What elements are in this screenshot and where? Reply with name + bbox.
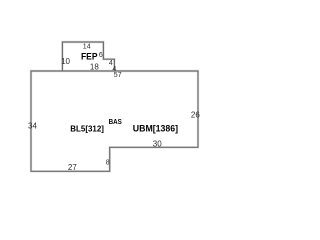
svg-text:18: 18 — [90, 62, 99, 71]
svg-text:34: 34 — [28, 122, 37, 131]
svg-text:8: 8 — [106, 160, 110, 167]
FEP porch outline halo — [62, 42, 114, 71]
svg-text:27: 27 — [68, 163, 77, 172]
svg-text:BL5[312]: BL5[312] — [70, 123, 104, 133]
svg-text:30: 30 — [153, 140, 162, 149]
svg-text:10: 10 — [61, 57, 70, 66]
main building outline (BAS/UBM/BL5 footprint) — [31, 71, 198, 171]
svg-text:6: 6 — [99, 52, 103, 59]
svg-text:BAS: BAS — [109, 119, 122, 126]
svg-text:UBM[1386]: UBM[1386] — [133, 123, 178, 133]
svg-text:FEP: FEP — [81, 51, 98, 61]
svg-text:14: 14 — [83, 44, 91, 51]
svg-text:26: 26 — [191, 110, 200, 119]
svg-text:57: 57 — [114, 72, 122, 79]
FEP porch outline — [62, 42, 114, 71]
main building outline halo — [31, 71, 198, 171]
